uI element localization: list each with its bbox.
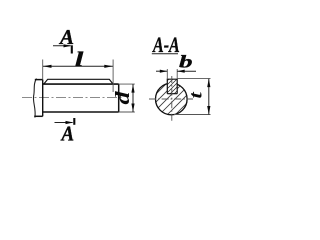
svg-text:l: l — [75, 48, 84, 71]
arrow l left — [43, 65, 52, 68]
shaft top edge — [43, 83, 119, 85]
wavy break line — [33, 79, 36, 118]
arrow l right — [104, 65, 113, 68]
dimension t extension bottom — [174, 114, 211, 116]
arrow d bottom — [131, 104, 134, 113]
section mark top: view arrow — [53, 45, 71, 47]
shoulder face — [42, 80, 44, 117]
collar top edge — [35, 79, 43, 81]
section mark bottom: view arrow — [55, 122, 73, 124]
arrow t top — [207, 79, 210, 88]
arrow t bottom — [207, 106, 210, 115]
shaft right end face — [118, 84, 120, 112]
key outline (walls and top) — [167, 79, 177, 94]
dimension d extension top — [119, 83, 135, 85]
svg-text:d: d — [112, 91, 134, 104]
shaft bottom edge — [43, 111, 119, 113]
dimension t extension top — [178, 78, 211, 80]
shaft section circle — [156, 83, 188, 115]
collar bottom edge — [34, 115, 43, 117]
dimension b left tail — [156, 70, 167, 72]
arrow b left — [160, 70, 168, 73]
centerline shaft axis — [22, 97, 122, 99]
section mark bottom: thick cut stroke — [73, 118, 75, 125]
key cross-section hatching — [160, 70, 196, 106]
dimension b extension right — [176, 69, 178, 79]
horizontal centerline — [149, 98, 193, 100]
svg-text:t: t — [186, 91, 205, 99]
dimension l extension right — [112, 60, 114, 93]
arrow d top — [131, 84, 134, 93]
section mark top: thick cut stroke — [71, 45, 73, 53]
vertical centerline — [171, 76, 173, 122]
dimension line l — [43, 65, 113, 67]
svg-text:A: A — [60, 123, 75, 146]
dimension line d — [132, 84, 134, 112]
key cross-section fill — [167, 79, 177, 94]
keyway slot bottom — [167, 93, 177, 95]
underline of A-A — [152, 53, 178, 55]
dimension l extension left — [42, 60, 44, 80]
dimension d extension bottom — [119, 111, 135, 113]
dimension b right tail — [177, 70, 196, 72]
shaft section hatching — [144, 70, 208, 132]
arrow b right — [177, 70, 185, 73]
svg-text:b: b — [179, 52, 192, 72]
dimension b extension left — [166, 69, 168, 79]
dimension line t — [208, 79, 210, 115]
key side view with ramped ends — [44, 79, 113, 84]
